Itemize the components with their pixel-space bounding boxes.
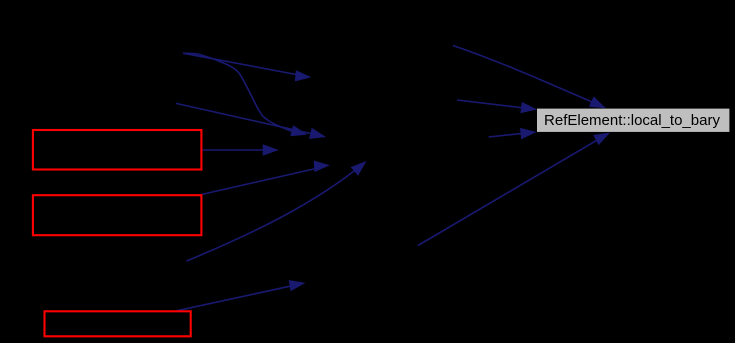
svg-text:RefElement::local_to_bary: RefElement::local_to_bary [544, 112, 720, 129]
